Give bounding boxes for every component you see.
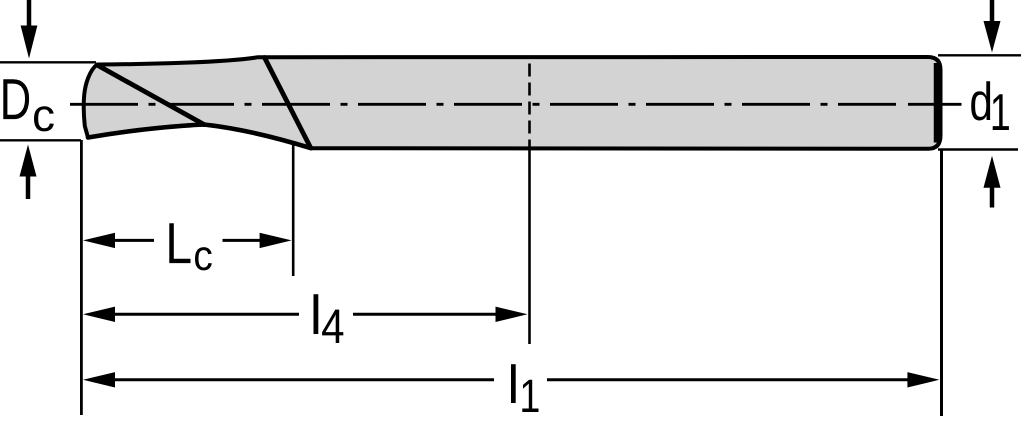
Lc right extension line (292, 145, 295, 277)
left extension line (80, 140, 83, 415)
centerline dash-dot (70, 103, 896, 106)
label Lc (169, 223, 212, 270)
l4 dimension line (83, 307, 528, 322)
l1 right extension line (940, 150, 943, 417)
label l4 (314, 294, 344, 343)
label Dc - D glyph (34, 106, 54, 131)
d1 bottom arrow (984, 156, 1001, 208)
Dc bottom arrow (20, 145, 37, 200)
centerline end tick (908, 103, 962, 106)
shank end face edge (thick) (934, 63, 941, 143)
label d1 (971, 81, 1009, 130)
Lc dimension line (83, 233, 292, 248)
Dc top measure line (0, 61, 96, 63)
tool body silhouette (drill with shank) (84, 57, 941, 149)
flute bottom lip edge (heavier) (88, 125, 311, 149)
Dc top arrow (21, 0, 38, 59)
d1 top measure line (938, 54, 1021, 56)
label d1 - d glyph (993, 94, 1009, 130)
Dc bottom measure line (0, 139, 81, 141)
d1 top arrow (984, 0, 1001, 53)
label l1 (511, 364, 539, 412)
vertical extension line l4 (528, 148, 531, 344)
l1 dimension line (83, 372, 939, 387)
d1 bottom measure line (938, 148, 1018, 150)
label Dc (3, 79, 54, 131)
label l4 - l glyph (322, 310, 343, 343)
vertical dashed section line (528, 64, 531, 149)
flute end edge (265, 58, 311, 148)
label l1 - l glyph (522, 380, 538, 412)
label Lc - L glyph (195, 247, 212, 270)
flute spiral edge (98, 66, 204, 125)
